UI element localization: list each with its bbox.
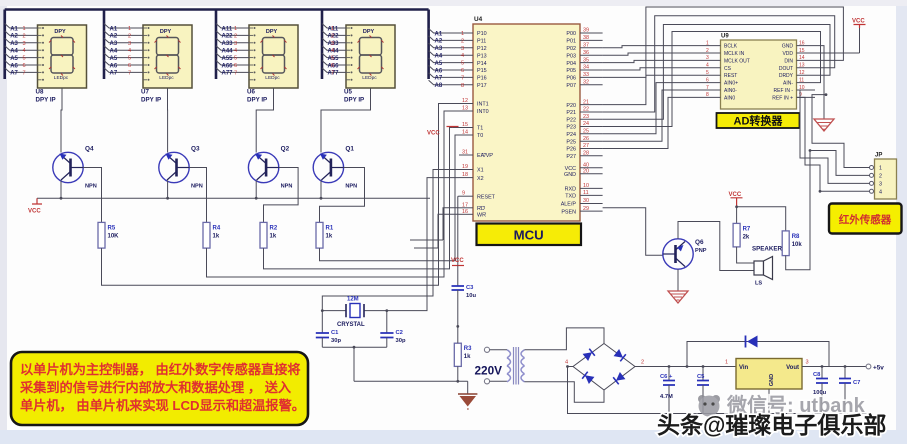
svg-text:13: 13: [799, 63, 805, 69]
wire MCU X2 to crystal left: [387, 178, 459, 311]
vertical bus drop: [103, 10, 106, 80]
AC source 220V terminals: [484, 347, 489, 352]
MCU pin INT0: [459, 110, 473, 112]
wire R3 to ground rail: [457, 366, 459, 381]
wire R5 to MCU INT1: [102, 104, 474, 286]
svg-text:32: 32: [583, 80, 589, 86]
svg-text:38: 38: [583, 35, 589, 41]
svg-text:16: 16: [462, 209, 468, 215]
wire A2 to DS1 pin 2: [5, 31, 38, 36]
MCU pin ALE/P: [580, 203, 603, 205]
svg-text:7: 7: [23, 70, 26, 76]
node AD-REF junction: [825, 93, 828, 96]
svg-text:DPY IP: DPY IP: [247, 97, 267, 104]
AD pin AIN0-: [703, 89, 721, 91]
MCU pin P05: [580, 69, 603, 71]
wire JP2 to R8 node: [810, 151, 870, 176]
svg-text:P21: P21: [566, 110, 576, 116]
wire A44 to DS4 pin 4: [322, 46, 346, 51]
svg-text:29: 29: [583, 206, 589, 212]
svg-text:C8: C8: [813, 372, 821, 378]
svg-text:采集到的信号进行内部放大和数据处理 ， 送入: 采集到的信号进行内部放大和数据处理 ， 送入: [19, 379, 292, 395]
AD pin VDD: [797, 52, 816, 54]
svg-text:PSEN: PSEN: [561, 209, 576, 215]
JP pin 3: [870, 181, 874, 185]
svg-text:3: 3: [879, 181, 882, 187]
MCU pin RXD: [580, 187, 603, 189]
resistor R1 1k: [316, 222, 323, 248]
svg-text:P20: P20: [566, 103, 576, 109]
MCU pin P27: [580, 155, 603, 157]
svg-text:14: 14: [799, 55, 805, 61]
svg-text:P02: P02: [566, 46, 576, 52]
svg-text:AIN-: AIN-: [783, 81, 793, 87]
wire MCU X1 to crystal right: [322, 170, 459, 311]
svg-text:REF IN +: REF IN +: [772, 95, 793, 101]
svg-text:LS: LS: [755, 281, 762, 287]
svg-text:A6: A6: [435, 68, 443, 74]
svg-text:21: 21: [583, 99, 589, 105]
svg-text:12M: 12M: [347, 297, 359, 303]
wire emitter to VCC rail: [255, 181, 257, 199]
svg-text:头条@璀璨电子俱乐部: 头条@璀璨电子俱乐部: [657, 412, 886, 438]
wire A5 to DS1 pin 5: [5, 53, 38, 58]
wire A77 to DS3 pin 7: [216, 68, 249, 73]
svg-text:P17: P17: [477, 83, 487, 89]
svg-text:P07: P07: [566, 83, 576, 89]
svg-text:P22: P22: [566, 117, 576, 123]
svg-text:17: 17: [462, 202, 468, 208]
wire A11 to DS3 pin 1: [216, 24, 249, 29]
wire Q2 base to R2: [264, 168, 299, 223]
svg-text:U4: U4: [474, 16, 483, 23]
capacitor C8: [821, 365, 824, 368]
ground (AD): [814, 119, 834, 131]
svg-text:DPY: DPY: [266, 29, 278, 35]
svg-text:红外传感器: 红外传感器: [839, 213, 892, 226]
wire A2 bus to MCU P11: [429, 36, 473, 41]
wire A66 to DS4 pin 6: [322, 61, 346, 66]
MCU pin P22: [580, 118, 603, 120]
svg-text:P24: P24: [566, 132, 576, 138]
AD pin MCLK OUT: [703, 59, 721, 61]
svg-text:P12: P12: [477, 46, 487, 52]
transistor Q1: [313, 152, 343, 182]
diode D5 bypass: [687, 342, 829, 367]
svg-text:8: 8: [461, 83, 464, 89]
svg-text:MCLK OUT: MCLK OUT: [724, 58, 750, 64]
svg-text:12: 12: [799, 70, 805, 76]
svg-text:39: 39: [583, 28, 589, 34]
svg-text:Vin: Vin: [739, 365, 749, 371]
svg-text:BCLK: BCLK: [724, 44, 738, 50]
svg-text:INT0: INT0: [477, 109, 489, 115]
MCU pin VCC: [580, 167, 603, 169]
svg-text:CS: CS: [724, 66, 732, 72]
wire display common to transistor collector: [61, 88, 62, 153]
svg-text:Vout: Vout: [786, 365, 799, 371]
svg-text:LEDpc: LEDpc: [54, 75, 69, 81]
wire A3 bus to MCU P12: [429, 43, 473, 48]
svg-text:A7: A7: [435, 76, 443, 82]
wire MCU P2 to AD (over top): [603, 25, 830, 120]
svg-text:DPY IP: DPY IP: [141, 97, 161, 104]
svg-text:X2: X2: [477, 176, 484, 182]
ground (Q6): [668, 291, 688, 303]
svg-text:P04: P04: [566, 61, 576, 67]
resistor R4 1k: [203, 222, 210, 248]
svg-text:A1: A1: [435, 31, 443, 37]
svg-text:T1: T1: [477, 126, 483, 132]
svg-text:1: 1: [725, 360, 728, 366]
svg-text:1k: 1k: [213, 233, 220, 239]
svg-text:3: 3: [461, 46, 464, 52]
svg-text:4.7M: 4.7M: [660, 394, 673, 400]
svg-text:A11: A11: [222, 26, 233, 32]
node X1 crystal: [321, 309, 324, 312]
svg-text:4: 4: [565, 360, 568, 366]
svg-text:20: 20: [583, 169, 589, 175]
svg-text:1: 1: [706, 40, 709, 46]
wire secondary top to bridge AC1: [525, 328, 605, 350]
svg-text:T0: T0: [477, 133, 483, 139]
wire secondary bottom to bridge AC2: [525, 382, 605, 402]
wire MCU P0 to AD left: [603, 68, 703, 70]
MCU label banner: [477, 224, 582, 246]
svg-text:R8: R8: [792, 234, 800, 240]
svg-text:LEDpc: LEDpc: [159, 75, 174, 81]
resistor R7 2k: [733, 223, 740, 247]
svg-text:AD转换器: AD转换器: [734, 114, 784, 128]
svg-text:R4: R4: [213, 225, 221, 231]
svg-text:A1: A1: [110, 26, 118, 32]
diode D3: [582, 372, 594, 384]
wire A1 to DS2 pin 1: [104, 24, 143, 29]
AD pin DRDY: [797, 74, 816, 76]
wire MCU P2 to AD (over top): [603, 16, 835, 112]
svg-text:A4: A4: [110, 49, 118, 55]
svg-text:R5: R5: [108, 225, 116, 231]
capacitor C3 10u: [457, 266, 459, 287]
wire A6 bus to MCU P15: [429, 66, 473, 71]
svg-text:13: 13: [462, 106, 468, 112]
transistor Q2: [248, 152, 278, 182]
svg-text:31: 31: [462, 150, 468, 156]
svg-text:28: 28: [583, 151, 589, 157]
svg-text:4: 4: [234, 48, 237, 54]
svg-text:NPN: NPN: [85, 184, 97, 190]
svg-text:R7: R7: [743, 226, 751, 232]
svg-text:DOUT: DOUT: [779, 66, 793, 72]
AD pin AIN0+: [703, 82, 721, 84]
node reset junction: [456, 325, 459, 328]
svg-text:1k: 1k: [270, 233, 277, 239]
AD pin REST: [703, 74, 721, 76]
wire MCU P2 to AD AIN: [603, 83, 703, 134]
svg-text:DPY IP: DPY IP: [344, 97, 364, 104]
svg-text:2: 2: [331, 33, 334, 39]
MCU pin P25: [580, 140, 603, 142]
svg-text:A5: A5: [110, 56, 118, 62]
wire MCU RESET to POR network: [458, 196, 459, 265]
node reset ground rail: [456, 380, 459, 383]
MCU pin P24: [580, 133, 603, 135]
svg-text:5: 5: [128, 56, 131, 62]
svg-text:6: 6: [461, 68, 464, 74]
capacitor C6 4.7M: [668, 365, 671, 368]
resistor R3 1k: [454, 343, 461, 366]
MCU pin T1: [459, 127, 473, 129]
wire crystal caps common: [322, 347, 387, 381]
svg-text:4: 4: [128, 48, 131, 54]
svg-text:A8: A8: [435, 83, 443, 89]
wire MCU P0 to AD left: [603, 53, 703, 55]
svg-text:A4: A4: [10, 49, 18, 55]
svg-text:8: 8: [706, 92, 709, 98]
MCU pin P02: [580, 47, 603, 49]
svg-text:30p: 30p: [331, 338, 341, 344]
wire A22 to DS4 pin 2: [322, 31, 346, 36]
svg-text:GND: GND: [769, 374, 775, 386]
wire A5 bus to MCU P14: [429, 58, 473, 63]
svg-text:1: 1: [23, 26, 26, 32]
wire VCC to R7: [736, 207, 738, 224]
svg-text:A1: A1: [10, 26, 18, 32]
svg-text:16: 16: [799, 40, 805, 46]
AD pin AIN-: [797, 82, 816, 84]
svg-text:P10: P10: [477, 31, 487, 37]
svg-text:33: 33: [583, 72, 589, 78]
svg-text:10k: 10k: [792, 242, 803, 248]
wire A4 to DS1 pin 4: [5, 46, 38, 51]
svg-text:22: 22: [583, 107, 589, 113]
svg-text:6: 6: [23, 63, 26, 69]
svg-text:C5: C5: [697, 374, 705, 380]
capacitor C5: [702, 365, 705, 368]
svg-text:A5: A5: [10, 56, 18, 62]
svg-text:6: 6: [331, 63, 334, 69]
wire A66 to DS3 pin 6: [216, 61, 249, 66]
wire emitter to VCC rail: [320, 181, 322, 199]
transistor Q3: [159, 152, 189, 182]
svg-text:1: 1: [128, 26, 131, 32]
MCU U4: [473, 24, 580, 221]
wire C3 to R3: [457, 326, 459, 343]
svg-text:Q4: Q4: [85, 146, 94, 153]
svg-text:11: 11: [799, 77, 804, 83]
node X2 crystal: [385, 309, 388, 312]
JP pin 2: [870, 173, 874, 177]
svg-text:A5: A5: [435, 61, 443, 67]
MCU pin P26: [580, 148, 603, 150]
wire display common to transistor collector: [321, 88, 371, 153]
MCU pin P21: [580, 111, 603, 113]
svg-text:19: 19: [462, 164, 468, 170]
svg-text:3: 3: [706, 55, 709, 61]
svg-text:MCU: MCU: [514, 228, 544, 243]
resistor R8 10k: [782, 231, 789, 256]
svg-text:Q2: Q2: [281, 146, 290, 153]
wire R8 to sensor node: [786, 151, 810, 270]
MCU pin P00: [580, 32, 603, 34]
resistor R5 10K: [98, 222, 105, 248]
svg-text:2: 2: [23, 33, 26, 39]
wire Q4 base to R5: [83, 168, 101, 223]
wire AC to transformer primary: [490, 350, 507, 382]
speaker LS1: [754, 261, 764, 275]
svg-text:15: 15: [462, 122, 468, 128]
note box: [11, 352, 308, 425]
svg-text:7: 7: [331, 70, 334, 76]
MCU pin P23: [580, 126, 603, 128]
wire Q3 base to R4: [189, 168, 206, 223]
svg-text:U8: U8: [36, 89, 44, 96]
svg-text:C1: C1: [331, 330, 339, 336]
AD pin AIN0: [703, 96, 721, 98]
vertical bus drop: [3, 10, 6, 80]
svg-text:P01: P01: [566, 39, 576, 45]
power symbol VCC (left rail): [32, 198, 42, 204]
svg-text:U6: U6: [247, 89, 255, 96]
wire A1 to DS1 pin 1: [5, 24, 38, 29]
wire A55 to DS3 pin 5: [216, 53, 249, 58]
svg-text:C3: C3: [466, 285, 474, 291]
svg-text:P00: P00: [566, 31, 576, 37]
wire JP3: [797, 90, 870, 183]
wire A1 bus to MCU P10: [429, 29, 473, 34]
svg-text:7: 7: [461, 75, 464, 81]
svg-text:5: 5: [461, 61, 464, 67]
wire R7 to speaker top: [737, 247, 754, 263]
wire A7 bus to MCU P16: [429, 73, 473, 78]
svg-text:1: 1: [461, 31, 464, 37]
MCU pin INT1: [459, 103, 473, 105]
svg-text:18: 18: [462, 172, 468, 178]
wire VCC to AD VDD: [815, 52, 860, 54]
svg-text:MCLK IN: MCLK IN: [724, 51, 745, 57]
svg-text:P25: P25: [566, 139, 576, 145]
svg-text:C6 +: C6 +: [660, 374, 673, 380]
wire A2 to DS2 pin 2: [104, 31, 143, 36]
svg-text:2: 2: [879, 173, 882, 179]
wire MCU WR stub: [414, 214, 459, 248]
wire emitter to VCC rail: [60, 181, 62, 199]
wire bridge DC+ to regulator Vin: [635, 366, 736, 368]
capacitor C2 30p: [386, 311, 388, 333]
MCU pin T0: [459, 134, 473, 136]
svg-text:34: 34: [583, 65, 589, 71]
wire JP4: [797, 97, 870, 191]
wire display common to transistor collector: [167, 88, 169, 153]
top address bus: [5, 8, 429, 11]
svg-text:C2: C2: [396, 330, 403, 336]
svg-text:6: 6: [234, 63, 237, 69]
capacitor C1 30p: [321, 311, 323, 333]
MCU pin P06: [580, 76, 603, 78]
svg-text:AIN0+: AIN0+: [724, 81, 738, 87]
svg-text:U5: U5: [344, 89, 352, 96]
svg-text:DPY IP: DPY IP: [36, 97, 56, 104]
svg-text:P05: P05: [566, 68, 576, 74]
wire A44 to DS3 pin 4: [216, 46, 249, 51]
svg-text:30: 30: [583, 198, 589, 204]
MCU pin RESET: [459, 195, 473, 197]
AD pin MCLK IN: [703, 52, 721, 54]
svg-text:6: 6: [706, 77, 709, 83]
wire A22 to DS3 pin 2: [216, 31, 249, 36]
vertical bus drop: [427, 10, 430, 80]
wire A77 to DS4 pin 7: [322, 68, 346, 73]
svg-text:3: 3: [128, 41, 131, 47]
wire A11 to DS4 pin 1: [322, 24, 346, 29]
svg-text:14: 14: [462, 130, 468, 136]
watermark icon: [698, 395, 720, 417]
7-segment display DS1: [38, 25, 87, 88]
7-segment display DS4: [346, 25, 395, 88]
svg-text:+5v: +5v: [873, 365, 884, 372]
bridge rectifier diamond: [573, 344, 635, 391]
7-segment display DS3: [249, 25, 298, 88]
svg-text:7: 7: [706, 85, 709, 91]
svg-text:6: 6: [128, 63, 131, 69]
svg-text:A33: A33: [222, 41, 234, 47]
wire emitter to VCC rail: [167, 181, 169, 199]
svg-text:A2: A2: [110, 34, 118, 40]
svg-text:5: 5: [331, 56, 334, 62]
svg-text:DRDY: DRDY: [779, 73, 794, 79]
svg-text:U7: U7: [141, 89, 149, 96]
svg-text:AIN0-: AIN0-: [724, 88, 737, 94]
svg-text:1: 1: [331, 26, 334, 32]
svg-text:VCC: VCC: [451, 258, 464, 264]
wire R4 to MCU INT0: [207, 111, 474, 277]
AD pin BCLK: [703, 45, 721, 47]
terminal +5v: [866, 364, 871, 369]
wire A33 to DS3 pin 3: [216, 38, 249, 43]
wire R1 to MCU T0: [320, 135, 474, 261]
svg-text:P14: P14: [477, 61, 487, 67]
svg-text:RXD: RXD: [565, 187, 576, 193]
wire VCC to R8: [737, 207, 786, 231]
svg-text:单片机， 由单片机来实现 LCD显示和超温报警。: 单片机， 由单片机来实现 LCD显示和超温报警。: [20, 397, 305, 413]
svg-text:A77: A77: [222, 71, 234, 77]
svg-text:SPEAKER: SPEAKER: [752, 246, 782, 253]
svg-text:Q1: Q1: [345, 146, 354, 153]
svg-text:12: 12: [462, 98, 468, 104]
svg-text:X1: X1: [477, 168, 484, 174]
diode D1: [583, 349, 595, 361]
svg-text:VCC: VCC: [852, 19, 865, 25]
AD pin REF IN -: [797, 89, 816, 91]
svg-text:1: 1: [234, 26, 237, 32]
svg-text:37: 37: [583, 43, 589, 49]
AD pin GND: [797, 45, 816, 47]
svg-text:R3: R3: [464, 346, 472, 352]
wire A3 to DS2 pin 3: [104, 38, 143, 43]
MCU pin PSEN: [580, 210, 603, 212]
svg-text:P13: P13: [477, 53, 487, 59]
wire A33 to DS4 pin 3: [322, 38, 346, 43]
diode D4: [613, 372, 625, 384]
svg-text:A44: A44: [222, 49, 234, 55]
MCU pin X1: [459, 169, 473, 171]
wire Q1 base to R1: [320, 168, 365, 223]
AD label banner: [717, 113, 800, 128]
svg-text:A55: A55: [222, 56, 234, 62]
MCU pin P03: [580, 54, 603, 56]
svg-text:DPY: DPY: [54, 29, 66, 35]
wire bridge DC- to ground rail: [568, 367, 869, 414]
